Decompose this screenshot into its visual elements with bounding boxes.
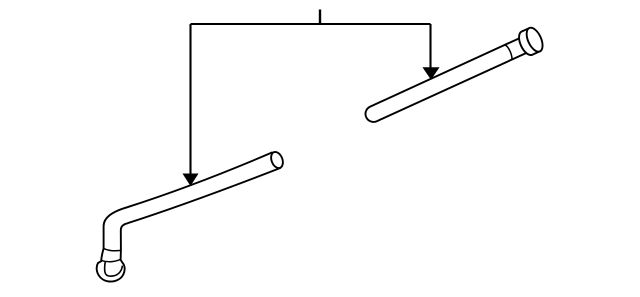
- label 1 tick: [319, 10, 321, 25]
- collar line 1: [103, 248, 121, 250]
- leader arrow left: [183, 24, 198, 185]
- grommet inner lip: [105, 262, 123, 277]
- tube part left (bent filler tube): [97, 150, 285, 281]
- tube outline: [97, 152, 281, 281]
- ring mark: [505, 45, 512, 60]
- collar line 2: [101, 259, 120, 261]
- head face: [523, 25, 545, 54]
- tube part right (straight tube with head): [365, 25, 545, 122]
- tube body fill: [97, 152, 281, 281]
- leader arrow right: [423, 24, 439, 79]
- tube body: [365, 38, 528, 122]
- callout bracket for item 1: [191, 23, 431, 25]
- open end ellipse: [269, 150, 285, 170]
- head back rim: [516, 29, 538, 58]
- head cylinder side: [522, 28, 540, 55]
